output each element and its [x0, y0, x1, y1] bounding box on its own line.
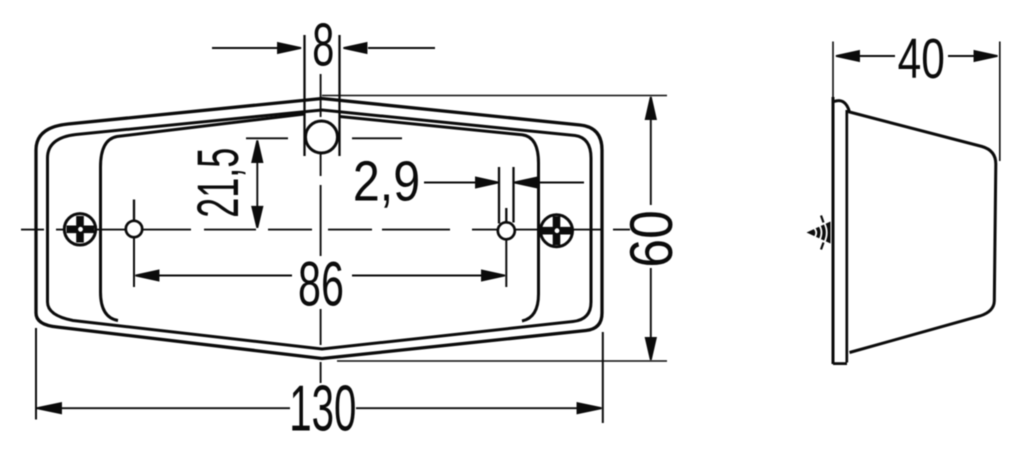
svg-text:40: 40 — [898, 27, 945, 91]
40 right extension line — [999, 42, 1001, 162]
inner parallel outline (lens rim) — [48, 110, 592, 349]
vertical centerline of front view — [320, 74, 322, 383]
dimension 86 line and arrows — [136, 271, 505, 281]
130 left extension line — [35, 328, 37, 420]
inner lens contour (open bracket shape) — [101, 114, 305, 321]
right hole center tick — [505, 208, 507, 223]
left hole 86 extension below — [133, 238, 135, 288]
mounting screw tip (pointed, with threads) — [807, 216, 831, 250]
left mounting hole — [126, 221, 142, 237]
svg-text:8: 8 — [312, 11, 334, 78]
lamp body profile — [834, 101, 996, 353]
left screw with phillips cross — [64, 214, 95, 245]
right screw with phillips cross — [541, 215, 573, 247]
horizontal centerline of front view — [21, 229, 630, 231]
bulb hole circle on tab — [306, 121, 338, 153]
plate back edge — [845, 110, 848, 363]
dimension 40 arrows — [836, 51, 998, 61]
inner lens contour right bracket — [340, 117, 539, 322]
dimension 8 arrows — [212, 43, 435, 53]
svg-text:60: 60 — [617, 210, 685, 267]
svg-text:130: 130 — [289, 373, 356, 445]
dimension 21,5 vertical double arrow — [252, 141, 262, 228]
right hole 86 extension below — [505, 239, 507, 287]
outer outline of lamp front view — [36, 99, 602, 359]
svg-text:2,9: 2,9 — [353, 150, 420, 214]
plate bottom foot — [833, 362, 847, 365]
tab lines / extension lines for dim 8 — [303, 35, 305, 156]
60 top extension line — [322, 95, 667, 97]
mounting plate front edge (also 40 left extension) — [832, 42, 834, 99]
2,9 arrows — [424, 178, 584, 188]
svg-text:21,5: 21,5 — [187, 148, 252, 218]
left hole tick above — [133, 200, 135, 222]
right hole slot lines — [498, 167, 500, 224]
right mounting hole — [498, 222, 515, 239]
21,5 extension line at bulb center level — [246, 137, 288, 139]
svg-text:86: 86 — [298, 250, 344, 320]
dimension 60 vertical line with arrows — [646, 97, 656, 360]
dimension 130 line and arrows — [37, 403, 602, 413]
130 right extension line — [602, 332, 604, 423]
60 bottom extension line — [337, 360, 667, 362]
